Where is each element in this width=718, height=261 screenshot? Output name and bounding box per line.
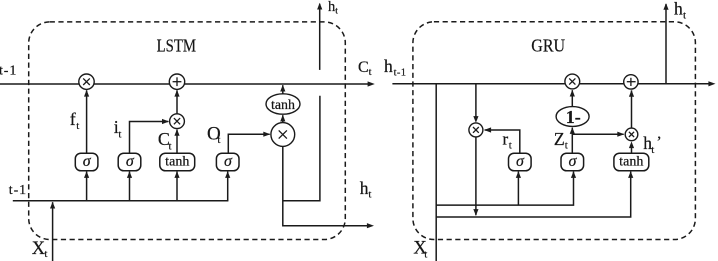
wire: X3 up to tanh ellipse <box>282 115 284 122</box>
ellipse 1- <box>556 107 589 127</box>
wire: LSTM cell-state line (t-1 to C_t) <box>0 83 369 85</box>
svg-text:σ: σ <box>568 153 577 170</box>
svg-text:t: t <box>683 9 686 21</box>
wire: 1- ellipse up to multiply Xa <box>571 90 573 106</box>
wire: sigma f up to multiply circle <box>86 90 88 153</box>
svg-text:t: t <box>76 120 79 132</box>
wire: GRU bus1 (h to gates) and turn up to sigma z <box>436 172 573 206</box>
svg-text:t-1: t-1 <box>9 183 27 198</box>
multiply circle Xa on main line <box>565 74 580 89</box>
wire: lower line to tanh box <box>176 172 178 201</box>
svg-text:t: t <box>369 67 372 78</box>
wire: main line down into multiply circle XL <box>475 84 477 117</box>
svg-text:t: t <box>335 7 338 17</box>
wire: h_t top arrow (above cell line) <box>319 4 321 70</box>
svg-text:t-1: t-1 <box>0 63 17 78</box>
svg-text:t: t <box>169 141 172 153</box>
svg-text:σ: σ <box>83 153 92 170</box>
wire: GRU bus2 (X_t to tanh) <box>436 172 631 217</box>
multiply circle XR <box>625 128 638 141</box>
gate sigma o (box) <box>216 153 239 171</box>
svg-text:Z: Z <box>554 129 565 149</box>
wire: X2 up to plus circle <box>176 90 178 114</box>
gate tanh candidate (box) <box>160 153 195 171</box>
svg-text:LSTM: LSTM <box>157 35 197 55</box>
LSTM cell dashed boundary <box>29 22 346 240</box>
svg-text:tanh: tanh <box>165 154 189 169</box>
svg-text:h: h <box>674 0 683 19</box>
svg-text:t: t <box>651 144 654 156</box>
wire: GRU main h line <box>392 83 709 85</box>
gate sigma i (box) <box>118 153 141 171</box>
GRU cell dashed boundary <box>413 22 696 240</box>
gate sigma f (box) <box>75 153 98 171</box>
wire: lower line to sigma f <box>86 172 88 201</box>
svg-text:’: ’ <box>656 134 661 151</box>
svg-text:tanh: tanh <box>271 98 295 113</box>
multiply circle XL (reset gate) <box>469 123 483 137</box>
svg-text:1-: 1- <box>566 107 581 127</box>
svg-text:h: h <box>384 56 393 76</box>
svg-text:f: f <box>70 109 76 129</box>
wire: lower line to sigma i <box>129 172 131 201</box>
svg-text:C: C <box>358 59 369 76</box>
gate sigma r (box) <box>509 153 532 171</box>
svg-text:σ: σ <box>126 153 135 170</box>
svg-text:t: t <box>118 128 121 140</box>
wire: tanh ellipse up to cell line <box>282 85 284 94</box>
wire: LSTM lower t-1 line <box>13 200 229 202</box>
svg-text:tanh: tanh <box>619 154 643 169</box>
svg-text:t: t <box>424 249 427 261</box>
wire: X_t input arrow (LSTM) <box>52 202 54 261</box>
wire: h branch up (below cell line) <box>283 96 320 201</box>
plus circle on GRU main line <box>624 75 638 89</box>
gate tanh (GRU box) <box>614 153 649 171</box>
svg-text:GRU: GRU <box>531 35 565 55</box>
svg-text:σ: σ <box>224 153 233 170</box>
big multiply circle X3 (output) <box>271 123 295 147</box>
wire: GRU X_t / h_(t-1) vertical <box>435 84 437 261</box>
multiply circle X1 on cell line <box>79 74 94 89</box>
multiply circle X2 <box>170 114 185 129</box>
wire: sigma r up and left into XL <box>485 130 520 153</box>
wire: GRU h_t top output <box>665 4 667 84</box>
wire: tanh box up to multiply circle X2 <box>176 130 178 154</box>
wire: sigma o up and right to big multiply circle <box>228 134 269 153</box>
svg-text:t: t <box>217 134 220 146</box>
svg-text:t: t <box>44 248 47 260</box>
svg-text:r: r <box>503 130 509 149</box>
wire: bus1 to sigma r <box>517 172 519 206</box>
wire: XR up to plus circle <box>631 90 633 128</box>
svg-text:t: t <box>565 139 568 151</box>
gate sigma z (box) <box>561 153 584 171</box>
svg-text:t-1: t-1 <box>394 67 407 78</box>
plus circle on cell line <box>169 74 184 89</box>
tanh ellipse <box>266 94 300 114</box>
svg-text:t: t <box>368 189 371 201</box>
wire: X3 down and right, h_t bottom output <box>283 146 368 225</box>
wire: lower line to sigma o <box>227 172 229 201</box>
wire: z branch right into XR <box>572 133 623 135</box>
wire: sigma z up to 1- ellipse <box>571 128 573 154</box>
svg-text:t: t <box>509 139 512 151</box>
wire: XL down to bus2 <box>475 137 477 215</box>
wire: tanh up into XR <box>631 148 633 153</box>
wire: sigma i up and right to multiply circle X2 <box>130 122 169 154</box>
svg-text:σ: σ <box>516 153 525 170</box>
